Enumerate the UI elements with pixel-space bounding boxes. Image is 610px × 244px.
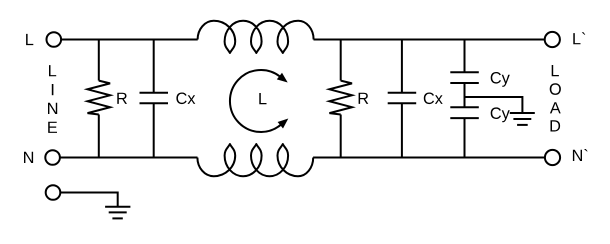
resistor R2 zigzag: [329, 81, 352, 115]
capacitor Cx1 wire top: [153, 40, 155, 93]
label LINE (vertical): [49, 65, 56, 76]
terminal L (line, top-left): [47, 32, 62, 47]
capacitor Cx2 bottom plate: [388, 102, 417, 104]
label LOAD (vertical): [552, 65, 559, 76]
inductor winding top (common-mode choke, line side): [198, 21, 314, 53]
capacitor Cy2 top plate: [450, 106, 479, 108]
wire: bottom rail right (choke to N` terminal): [313, 157, 545, 159]
terminal N (line, bottom-left): [45, 150, 60, 165]
label Cx2: [424, 93, 443, 105]
flux arrowhead top (clockwise): [277, 73, 288, 83]
capacitor Cy1 top plate: [450, 71, 479, 73]
ground symbol (chassis, bottom-left): [105, 206, 130, 208]
resistor R1 branch wire bottom: [98, 115, 100, 158]
resistor R1 zigzag: [88, 81, 111, 115]
terminal label N`: [573, 149, 588, 161]
capacitor Cx1 wire bottom: [153, 103, 155, 157]
resistor R2 branch wire bottom: [340, 115, 342, 158]
terminal N` (load, bottom-right): [545, 150, 560, 165]
capacitor Cy2 wire bottom: [464, 118, 466, 157]
capacitor Cx2 wire bottom: [401, 103, 403, 157]
terminal label L: [26, 34, 33, 45]
wire: bottom rail left (N terminal to choke): [60, 157, 198, 159]
capacitor Cx2 top plate: [388, 92, 417, 94]
wire between Cy1 and Cy2: [464, 83, 466, 107]
ground symbol (Cy earth): [510, 112, 535, 114]
wire: top rail left (L terminal to choke): [61, 39, 198, 41]
capacitor Cy2 bottom plate: [450, 117, 479, 119]
capacitor Cx2 wire top: [401, 40, 403, 93]
resistor R2 branch wire top: [340, 40, 342, 81]
wire: top rail right (choke to L` terminal): [314, 39, 545, 41]
inductor winding bottom (common-mode choke, neutral side): [197, 144, 313, 176]
terminal label N: [24, 152, 33, 163]
label Cy1: [491, 72, 510, 87]
wire: Cy midpoint stub to earth: [465, 97, 523, 113]
terminal label L`: [573, 32, 585, 44]
label Cy2: [491, 107, 510, 122]
terminal GND (bottom-left earth terminal): [46, 185, 61, 200]
flux arrowhead bottom (counter-clockwise): [278, 119, 289, 129]
label R2: [359, 93, 369, 104]
label L (choke inductance): [259, 93, 266, 104]
label R1: [117, 93, 127, 104]
label Cx1: [176, 93, 195, 105]
wire: GND terminal to chassis ground: [60, 193, 117, 207]
capacitor Cy1 bottom plate: [450, 82, 479, 84]
capacitor Cy1 wire top: [464, 40, 466, 73]
circular flux arrow of choke: [230, 70, 281, 132]
resistor R1 branch wire top: [98, 40, 100, 81]
terminal L` (load, top-right): [545, 32, 560, 47]
capacitor Cx1 bottom plate: [140, 102, 169, 104]
capacitor Cx1 top plate: [140, 92, 169, 94]
